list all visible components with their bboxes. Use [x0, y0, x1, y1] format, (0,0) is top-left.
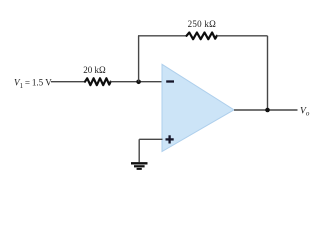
wire: R1 to inverting input — [111, 81, 163, 83]
resistor R2 — [187, 33, 217, 40]
wire: non-inverting input to ground — [138, 139, 140, 162]
wire: op-amp output — [234, 109, 298, 111]
junction: output node — [265, 108, 270, 113]
op-amp U1 non-inverting pin marker (+) — [166, 135, 174, 143]
wire: feedback top right segment — [217, 35, 268, 37]
junction: inverting input node — [136, 80, 141, 85]
wire: non-inverting input horizontal — [139, 138, 162, 140]
ground — [131, 163, 148, 169]
svg-text:Vo: Vo — [300, 106, 310, 118]
resistor R1 — [85, 78, 111, 85]
op-amp U1 — [162, 64, 234, 151]
svg-text:V1 = 1.5 V: V1 = 1.5 V — [14, 78, 52, 90]
op-amp U1 inverting pin marker (-) — [166, 80, 174, 82]
svg-text:20 kΩ: 20 kΩ — [83, 65, 106, 75]
svg-text:250 kΩ: 250 kΩ — [188, 19, 217, 29]
wire: source to R1 — [51, 81, 86, 83]
wire: feedback top left segment — [138, 35, 188, 37]
wire: feedback left vertical — [138, 36, 140, 82]
wire: feedback right vertical — [267, 36, 269, 110]
